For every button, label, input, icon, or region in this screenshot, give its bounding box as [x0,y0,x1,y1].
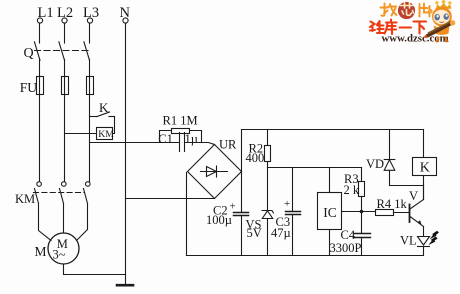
svg-text:1µ: 1µ [185,132,198,146]
svg-text:3~: 3~ [53,247,66,261]
wire L3 upper stub [89,23,91,43]
label K (contact) [99,100,109,115]
capacitor C4 [354,212,371,256]
wire VD to collector node [390,186,424,200]
switch Q linkage (dashed) [35,50,90,52]
wire KM to motor middle [63,204,65,234]
svg-text:K: K [99,100,109,115]
watermark text www.dzsc.com [382,32,449,44]
wire N vertical [125,23,127,274]
svg-text:C4: C4 [341,228,356,242]
svg-text:5V: 5V [247,226,262,240]
node junction (R3/C4/R4/IC) [360,210,364,214]
label R1 1M [163,114,198,128]
svg-text:KM: KM [98,129,114,140]
svg-text:K: K [420,160,430,175]
svg-text:R4 1k: R4 1k [377,197,408,211]
label VL [400,234,417,248]
label C3 value 47u [271,226,291,240]
svg-text:100µ: 100µ [206,213,232,227]
contactor main contact KM pole 3 [84,182,91,204]
svg-text:47µ: 47µ [271,226,291,240]
svg-text:L2: L2 [57,5,73,21]
terminal L1 [37,18,42,23]
label VS [246,217,262,231]
label UR [219,138,237,152]
svg-text:VL: VL [400,234,417,248]
wire L1 upper stub [39,23,41,43]
svg-text:Q: Q [24,46,34,61]
wire bridge plus up to top rail [241,130,243,172]
switch Q pole 2 [59,42,65,61]
zener diode VS [262,168,274,256]
label R3 [344,172,359,186]
label M (external) [35,244,47,259]
label C2 [213,203,228,217]
label R4 1k [377,197,408,211]
wire bridge minus (left vertex) down [186,172,188,255]
contactor main contact KM pole 2 [60,182,67,204]
svg-text:+: + [284,198,290,210]
watermark text 维库一下 (vector strokes) [370,20,426,35]
svg-text:V: V [409,189,418,203]
label Q [24,46,34,61]
svg-text:+: + [230,201,236,213]
label C1 value 1u [185,132,198,146]
wire L1 middle [39,60,41,77]
transistor V [410,186,424,237]
wire L3 middle [89,60,91,77]
svg-text:KM: KM [15,192,35,206]
wire bridge plus down to C2 [241,172,243,213]
wire R1 branch left [160,131,172,143]
label C4 value 3300P [330,241,362,255]
IC U1 [318,168,342,256]
wire KM to motor right [77,204,88,241]
resistor R1 [172,129,190,134]
capacitor C2 (electrolytic) [234,213,249,256]
terminal L3 [87,18,92,23]
svg-text:C1: C1 [158,132,173,146]
label C2 value 100u [206,213,232,227]
wire L2 lower [64,95,66,182]
wire L3 lower [89,95,91,182]
LED VL flash arrows [428,231,439,245]
wire KM coil to L2 [65,133,97,135]
label KM (contacts) [15,192,35,206]
label C3 plus [284,198,290,210]
label IC [323,205,337,220]
fuse FU3 [87,77,94,95]
terminal L2 [62,18,67,23]
wire motor to ground [64,264,126,275]
wire C1 to bridge [185,143,215,145]
label R3 value 2k [344,183,360,197]
wire L1 lower [39,95,41,182]
label R2 value 400 [246,151,265,165]
wire L2 upper stub [64,23,66,43]
LED VL [418,237,430,256]
fuse FU1 [37,77,44,95]
capacitor C3 (electrolytic) [286,168,301,256]
watermark text 找芯片 (vector strokes) [381,4,397,16]
motor M [48,233,79,264]
label M (in motor) [57,237,68,251]
label K (coil) [420,160,430,175]
label C1 [158,132,173,146]
contactor coil KM [97,128,115,140]
svg-text:3300P: 3300P [330,241,362,255]
wire IC output to node [342,211,376,213]
svg-text:2 k: 2 k [344,183,360,197]
bridge rectifier UR [188,145,242,199]
wire N to bridge bottom vertex [126,198,215,200]
top rail (positive) [242,129,424,131]
label C4 [341,228,356,242]
label FU [20,80,38,95]
label N [120,5,131,21]
svg-text:M: M [35,244,47,259]
wire L2 middle [64,60,66,77]
relay contact K [90,112,115,134]
ground [117,275,133,286]
label L1 [38,5,54,21]
label L2 [57,5,73,21]
label R2 [249,141,264,155]
switch Q pole 1 [34,42,40,61]
label 3~ (in motor) [53,247,66,261]
watermark mascot [423,0,455,42]
wire L3 to C1 (main control feed) [90,142,180,144]
svg-text:400: 400 [246,151,265,165]
wire R1 branch right [190,131,202,143]
label C2 plus [230,201,236,213]
bottom rail (negative) [187,255,424,257]
svg-text:FU: FU [20,80,38,95]
contactor main contact KM pole 1 [35,182,42,204]
relay coil K [413,130,437,186]
capacitor C1 [180,133,185,152]
watermark: red circle behind second char [398,2,415,19]
5V rail [268,167,362,169]
resistor R3 [359,168,365,212]
label V [409,189,418,203]
fuse FU2 [62,77,69,95]
resistor R4 [376,210,409,216]
svg-text:L1: L1 [38,5,54,21]
switch Q pole 3 [84,42,90,61]
svg-text:IC: IC [323,205,337,220]
svg-text:L3: L3 [83,5,99,21]
label C3 [276,215,291,229]
svg-text:VD: VD [366,157,384,171]
svg-text:N: N [120,5,131,21]
KM contacts linkage (dashed) [34,192,85,194]
label VS value 5V [247,226,262,240]
diode VD (freewheel) [384,130,395,186]
terminal N [123,18,128,23]
label VD [366,157,384,171]
svg-text:UR: UR [219,138,237,152]
label L3 [83,5,99,21]
svg-text:R1 1M: R1 1M [163,114,198,128]
resistor R2 [265,130,271,168]
wire KM to motor left [39,204,52,241]
